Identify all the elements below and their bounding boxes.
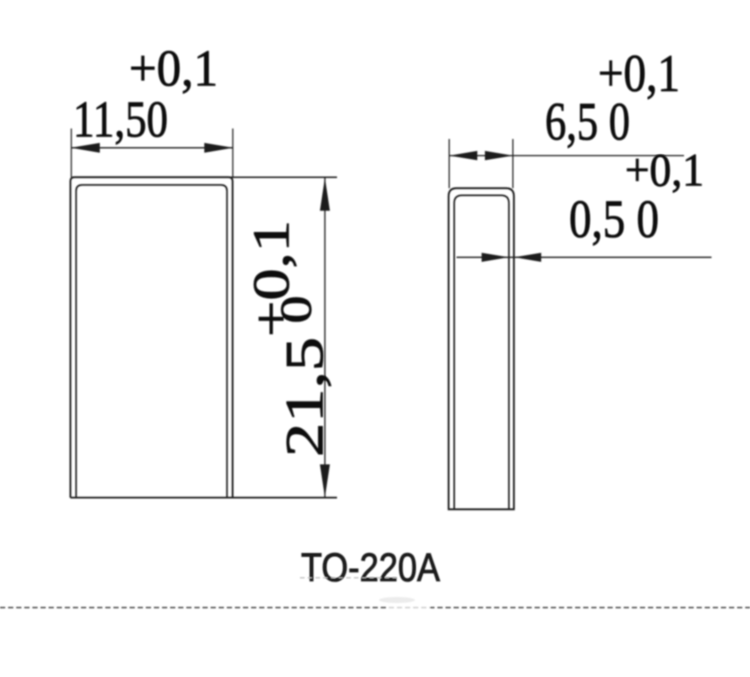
dim 0,5: right-pointing arrowhead <box>482 253 509 262</box>
svg-text:6,5 0: 6,5 0 <box>545 91 630 151</box>
side view outer outline <box>449 188 514 509</box>
faint dashed remnant under caption <box>300 577 399 579</box>
main dashed separator line <box>0 607 750 609</box>
faded zone on dashed line <box>388 604 430 612</box>
dim 6,5: right arrowhead <box>485 151 513 160</box>
dim 6,5: right extension line <box>512 139 514 188</box>
dim 11,50: left arrowhead <box>71 143 100 153</box>
dim 0,5: left-pointing arrowhead <box>514 253 541 262</box>
front view bottom edge extended (ext line for 21,5) <box>70 497 337 499</box>
dim 6,5: dimension line <box>449 155 684 157</box>
dim 11,50: right arrowhead <box>204 143 233 153</box>
svg-text:21,5: 21,5 <box>275 337 335 457</box>
dim 6,5: left extension line <box>448 139 450 188</box>
dim 6,5: left arrowhead <box>449 151 477 160</box>
faint smudge <box>379 597 415 603</box>
dim 11,50: dimension line <box>71 147 233 149</box>
dim 21,5: dimension line <box>324 177 326 497</box>
dim 21,5: up arrowhead <box>320 178 330 211</box>
dim 11,50: left extension line <box>70 129 72 178</box>
front view inner outline <box>76 185 227 498</box>
svg-text:TO-220A: TO-220A <box>301 546 440 590</box>
svg-text:0: 0 <box>272 296 321 324</box>
dim 0,5: leader line <box>457 256 712 258</box>
front view outer outline <box>70 177 232 497</box>
front view top edge extended (ext line for 21,5) <box>74 176 337 178</box>
svg-text:11,50: 11,50 <box>73 91 168 148</box>
dim 11,50: right extension line <box>232 129 234 178</box>
dim 21,5: down arrowhead <box>320 464 330 497</box>
svg-text:0,5 0: 0,5 0 <box>569 189 659 249</box>
side view inner outline <box>454 195 509 509</box>
svg-text:+0,1: +0,1 <box>129 41 218 98</box>
